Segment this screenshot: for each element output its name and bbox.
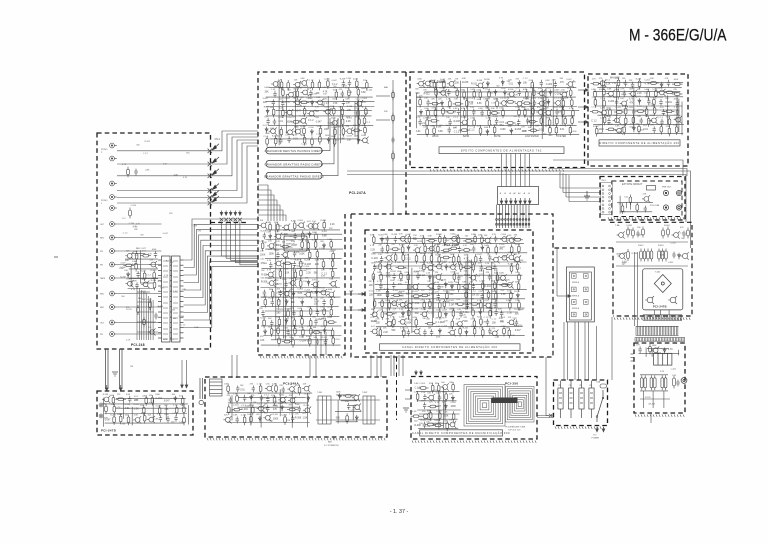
resistor R148 <box>319 134 322 145</box>
capacitor C199 <box>423 329 426 336</box>
cluster G-head annotation texts <box>104 400 185 426</box>
resistor R434 <box>259 383 262 394</box>
arrow <box>524 198 527 204</box>
capacitor C146 <box>480 110 483 117</box>
svg-text:4.7K: 4.7K <box>335 140 340 142</box>
wire balance rail <box>376 95 390 97</box>
wire strip feed <box>258 200 277 221</box>
resistor R180 <box>330 297 333 308</box>
resistor R266 <box>594 89 597 100</box>
resistor R198 <box>311 331 322 334</box>
resistor R366 <box>443 299 446 310</box>
resistor R454 <box>428 405 439 408</box>
wire <box>269 87 373 89</box>
svg-text:4.7K: 4.7K <box>307 88 312 90</box>
svg-text:4.7K: 4.7K <box>446 301 451 303</box>
capacitor C117 <box>287 136 290 143</box>
transistor Q220 <box>288 397 296 404</box>
svg-text:6.8K: 6.8K <box>648 120 653 122</box>
wire <box>104 403 188 405</box>
svg-text:0.047: 0.047 <box>277 136 283 138</box>
resistor R230 <box>442 106 445 117</box>
C-288 box <box>647 186 656 191</box>
transistor Q149 <box>538 90 546 97</box>
resistor R125 <box>299 101 310 104</box>
svg-text:1.5K: 1.5K <box>415 303 420 305</box>
transistor Q143 <box>423 80 431 87</box>
wire <box>250 402 252 425</box>
wire into PCI-247D <box>181 360 183 382</box>
svg-text:4.7K: 4.7K <box>116 407 121 409</box>
svg-text:2.2K: 2.2K <box>307 306 312 308</box>
wire riser speaker <box>556 248 558 296</box>
capacitor C173 <box>458 246 461 253</box>
transistor Q175 <box>385 254 393 261</box>
wire <box>545 88 547 127</box>
resistor R201 <box>282 340 293 343</box>
dashed branch left <box>553 247 613 249</box>
capacitor C227 <box>423 422 426 429</box>
resistor R241 <box>426 117 429 128</box>
wire <box>417 400 457 402</box>
resistor R288 <box>668 116 671 127</box>
diode D104 <box>265 127 268 134</box>
diode D145 <box>465 330 468 337</box>
rectifier bridge diamond <box>654 275 671 293</box>
svg-text:R-208: R-208 <box>637 235 643 237</box>
switch contact <box>208 162 212 166</box>
svg-text:C-204: C-204 <box>334 339 340 341</box>
capacitor C167 <box>660 119 663 126</box>
resistor R284 <box>603 115 606 126</box>
wire <box>651 349 653 357</box>
resistor R390 <box>503 326 506 337</box>
wire <box>542 97 544 132</box>
svg-text:4.7K: 4.7K <box>463 245 468 247</box>
printed spiral coil 2 <box>506 387 535 423</box>
wire strip feed <box>258 195 274 221</box>
tick row under PCI-249A <box>207 438 385 440</box>
svg-text:1.5K: 1.5K <box>278 226 283 228</box>
wire <box>316 399 380 401</box>
tick row under AC board <box>635 415 684 417</box>
capacitor C161 <box>676 100 679 107</box>
resistor R208 <box>435 87 438 98</box>
capacitor C145 <box>472 109 475 116</box>
svg-text:0.047: 0.047 <box>431 80 437 82</box>
wire into PCI-250 <box>393 355 395 376</box>
svg-text:R-311: R-311 <box>320 287 326 289</box>
resistor R273 <box>594 97 597 108</box>
wire speaker to plug <box>588 322 590 380</box>
wire <box>603 109 680 111</box>
wire <box>639 352 680 354</box>
resistor R377 <box>472 307 475 318</box>
wire <box>617 202 653 204</box>
resistor R443 <box>243 415 246 426</box>
svg-text:2.2K: 2.2K <box>461 125 466 127</box>
svg-text:4.7K: 4.7K <box>416 117 421 119</box>
capacitor C154 <box>624 80 627 87</box>
capacitor C104 <box>135 282 138 289</box>
svg-text:C-204: C-204 <box>349 410 355 412</box>
svg-text:C-204: C-204 <box>608 101 615 103</box>
resistor R306 <box>512 239 523 242</box>
wire jack to switch <box>117 306 162 308</box>
mic jack pair <box>663 205 681 210</box>
svg-text:100K: 100K <box>462 308 467 310</box>
resistor R145 <box>274 136 277 147</box>
resistor R441 <box>252 405 255 416</box>
svg-text:1.5K: 1.5K <box>269 420 274 422</box>
transistor Q222 <box>303 407 311 414</box>
wire <box>415 93 417 128</box>
resistor R172 <box>279 269 282 280</box>
wire into PCI-250 <box>390 355 392 376</box>
wire jack to switch <box>117 333 162 335</box>
cluster I-amp annotation texts <box>419 390 457 428</box>
svg-text:H FILTER: H FILTER <box>556 136 566 138</box>
connector comb row 2 <box>636 326 679 335</box>
svg-text:R-208: R-208 <box>636 79 642 81</box>
resistor R369 <box>480 300 483 311</box>
resistor R106 <box>135 261 138 272</box>
resistor R446 <box>343 395 354 398</box>
resistor R280 <box>635 110 646 113</box>
resistor R412 <box>650 375 653 390</box>
resistor R220 <box>453 103 464 106</box>
diode D117 <box>264 329 267 336</box>
arrow <box>505 198 508 204</box>
resistor R193 <box>270 326 273 337</box>
capacitor C221 <box>236 417 239 424</box>
capacitor C111 <box>272 99 275 106</box>
resistor R121 <box>296 89 299 100</box>
svg-text:4.7K: 4.7K <box>267 260 272 262</box>
svg-text:100K: 100K <box>247 414 252 416</box>
resistor R102 <box>129 208 132 219</box>
svg-text:PCI-250: PCI-250 <box>505 382 518 386</box>
wire <box>677 350 679 356</box>
resistor R275 <box>653 97 656 108</box>
bundle wire <box>519 154 521 187</box>
capacitor C141 <box>518 89 521 96</box>
wire <box>417 409 461 411</box>
resistor R373 <box>384 313 395 316</box>
svg-text:M - 366E/G/U/A: M - 366E/G/U/A <box>629 26 727 45</box>
resistor R382 <box>451 319 454 330</box>
svg-text:100K: 100K <box>260 255 266 257</box>
capacitor C171 <box>494 236 497 243</box>
svg-text:6.8K: 6.8K <box>327 316 332 318</box>
resistor R447 <box>346 413 349 424</box>
wire board interconnect <box>231 355 233 378</box>
transistor Q147 <box>439 89 447 96</box>
capacitor C138 <box>540 80 543 87</box>
capacitor C108 <box>273 91 276 98</box>
svg-text:2.2K: 2.2K <box>413 326 418 328</box>
svg-text:0.01: 0.01 <box>125 408 130 410</box>
svg-text:0.047: 0.047 <box>473 326 479 328</box>
capacitor C160 <box>659 99 662 106</box>
arrow <box>500 198 503 204</box>
resistor R384 <box>480 316 483 327</box>
resistor R345 <box>407 282 410 293</box>
transistor Q185 <box>469 274 477 281</box>
wire jack to switch <box>117 322 162 324</box>
wire <box>165 406 167 420</box>
resistor R215 <box>533 88 536 99</box>
wire riser <box>565 174 567 197</box>
svg-text:2.2K: 2.2K <box>552 79 557 81</box>
transistor Q137 <box>329 280 337 287</box>
svg-text:0.047: 0.047 <box>440 79 446 81</box>
wire jack to switch <box>117 223 162 225</box>
resistor R147 <box>311 137 314 148</box>
transistor Q164 <box>613 117 621 124</box>
resistor R111 <box>143 317 146 328</box>
svg-text:6.8K: 6.8K <box>346 98 351 100</box>
svg-text:2.2K: 2.2K <box>279 108 284 110</box>
capacitor C175 <box>380 256 383 263</box>
wire <box>416 391 459 393</box>
wire strip feed <box>258 210 283 221</box>
svg-text:6.8K: 6.8K <box>320 307 325 309</box>
svg-text:1.5K: 1.5K <box>299 327 304 329</box>
svg-text:R-208: R-208 <box>261 282 268 284</box>
resistor R406 <box>661 249 664 262</box>
arrow <box>602 427 605 432</box>
switch contact <box>208 201 212 205</box>
capacitor C162 <box>632 109 635 116</box>
svg-text:C-204: C-204 <box>297 220 303 222</box>
wire board interconnect <box>370 355 372 377</box>
capacitor C166 <box>640 118 643 125</box>
wire <box>316 419 380 421</box>
wire <box>275 223 277 340</box>
tape jack 8 <box>110 320 117 325</box>
svg-text:C-204: C-204 <box>442 245 448 247</box>
wire strip feed <box>258 215 286 221</box>
resistor R191 <box>324 318 327 329</box>
svg-text:4.7K: 4.7K <box>264 117 269 119</box>
transistor Q111 <box>293 99 301 106</box>
capacitor C200 <box>430 329 433 336</box>
svg-text:BASS: BASS <box>463 135 470 138</box>
capacitor C225 <box>438 395 441 402</box>
svg-text:1.5K: 1.5K <box>147 299 152 301</box>
transistor Q190 <box>505 281 513 288</box>
wire <box>116 398 186 400</box>
capacitor C206 <box>638 347 641 354</box>
svg-text:4.7K: 4.7K <box>549 135 554 137</box>
transistor Q168 <box>399 235 407 242</box>
svg-text:0.047: 0.047 <box>515 330 521 332</box>
resistor R327 <box>457 254 460 265</box>
svg-text:CN: CN <box>130 366 134 368</box>
svg-text:C 1.2: C 1.2 <box>454 131 460 133</box>
resistor R287 <box>647 116 650 127</box>
stray dashed edge left of PCI-250 <box>396 357 398 420</box>
svg-text:0.047: 0.047 <box>554 90 560 92</box>
resistor R249 <box>556 116 559 127</box>
wire <box>132 253 145 255</box>
resistor R367 <box>455 303 466 306</box>
resistor R344 <box>518 272 521 283</box>
PCB board PCI-230 outline <box>365 230 533 353</box>
svg-text:100K: 100K <box>499 273 504 275</box>
svg-text:R-208: R-208 <box>484 79 490 81</box>
resistor R438 <box>273 395 276 406</box>
PCB board PCI-247D outline <box>97 391 193 435</box>
svg-text:R-208: R-208 <box>392 234 398 236</box>
svg-text:R-311: R-311 <box>428 270 434 272</box>
wire <box>105 422 185 424</box>
svg-text:100K: 100K <box>599 129 605 131</box>
resistor R371 <box>518 300 521 311</box>
resistor R436 <box>298 385 301 396</box>
svg-text:2.2K: 2.2K <box>419 268 424 270</box>
wire R2 rail <box>640 398 670 400</box>
switch contact <box>229 218 233 222</box>
transistor Q107 <box>293 81 301 88</box>
svg-text:4.7K: 4.7K <box>453 304 458 306</box>
resistor R262 <box>617 78 620 89</box>
tape jack 4 <box>110 262 117 267</box>
svg-text:100K: 100K <box>436 336 441 338</box>
capacitor C184 <box>488 274 491 281</box>
svg-text:4.7K: 4.7K <box>164 275 169 277</box>
svg-text:C-204: C-204 <box>361 98 367 100</box>
svg-text:50K: 50K <box>384 111 388 113</box>
diode D148 <box>174 396 177 403</box>
transistor Q184 <box>434 273 442 280</box>
wire <box>275 233 342 235</box>
resistor R224 <box>505 101 516 104</box>
svg-text:6.8K: 6.8K <box>497 280 502 282</box>
svg-text:2.2K: 2.2K <box>299 249 304 251</box>
svg-text:T-301: T-301 <box>317 392 323 394</box>
svg-text:100K: 100K <box>269 253 275 255</box>
svg-text:6.8K: 6.8K <box>430 288 435 290</box>
capacitor C124 <box>293 261 296 268</box>
resistor R428 <box>113 414 116 425</box>
wire selector to preamp <box>226 222 258 259</box>
svg-text:C-204: C-204 <box>601 85 607 87</box>
svg-text:0.047: 0.047 <box>599 89 605 91</box>
resistor R235 <box>502 108 505 119</box>
resistor R267 <box>603 87 606 98</box>
svg-text:R-311: R-311 <box>477 317 483 319</box>
svg-text:6.8K: 6.8K <box>322 235 327 237</box>
svg-text:2.2K: 2.2K <box>443 421 448 423</box>
capacitor C152 <box>526 118 529 125</box>
resistor R361 <box>381 298 384 309</box>
R1 left dashed edge <box>612 248 614 316</box>
wire <box>282 262 284 339</box>
resistor R455 <box>411 415 422 418</box>
svg-text:2.2K: 2.2K <box>470 107 475 109</box>
fuse <box>600 384 607 388</box>
svg-text:R-618: R-618 <box>658 245 664 247</box>
wire speaker to plug <box>578 322 580 380</box>
PCB board PCI-250 outline <box>411 377 537 440</box>
svg-text:1.5K: 1.5K <box>508 126 513 128</box>
wire <box>645 348 647 357</box>
wire nest inside PCI-248 <box>137 286 158 340</box>
svg-text:6.8K: 6.8K <box>301 135 306 137</box>
svg-text:C-204: C-204 <box>297 289 303 291</box>
wire <box>373 252 528 254</box>
resistor R425 <box>158 405 161 416</box>
resistor R326 <box>452 254 455 265</box>
wire <box>640 390 668 392</box>
transistor Q127 <box>306 222 314 229</box>
svg-text:4.7K: 4.7K <box>372 321 377 323</box>
capacitor C220 <box>298 406 301 413</box>
wire jack to switch <box>117 237 162 239</box>
svg-text:4.7K: 4.7K <box>267 269 272 271</box>
transistor Q180 <box>384 263 392 270</box>
resistor R426 <box>175 405 178 416</box>
svg-text:100K: 100K <box>629 127 634 129</box>
svg-text:CN-205: CN-205 <box>648 404 656 406</box>
resistor R135 <box>358 116 361 127</box>
transistor Q151 <box>500 99 508 106</box>
resistor R394 <box>636 202 639 213</box>
svg-text:6.8K: 6.8K <box>345 401 350 403</box>
resistor R381 <box>425 322 436 325</box>
svg-text:0.01: 0.01 <box>560 129 565 131</box>
svg-text:R-208: R-208 <box>435 254 441 256</box>
svg-text:4.7K: 4.7K <box>514 94 519 96</box>
svg-text:100K: 100K <box>331 250 336 252</box>
svg-text:1.5K: 1.5K <box>455 273 460 275</box>
resistor R383 <box>473 318 476 329</box>
power board dashed outline <box>610 222 692 316</box>
svg-text:6.8K: 6.8K <box>145 169 150 171</box>
svg-text:6.8K: 6.8K <box>607 88 612 90</box>
transistor Q120 <box>286 129 294 136</box>
resistor R120 <box>282 87 285 98</box>
diode D155 <box>451 395 454 402</box>
transistor Q207 <box>672 231 680 238</box>
svg-text:TAPE: TAPE <box>100 277 106 280</box>
svg-text:6.8K: 6.8K <box>291 241 296 243</box>
svg-text:47K: 47K <box>273 409 278 411</box>
resistor R257 <box>528 129 539 132</box>
svg-text:100K: 100K <box>332 99 337 101</box>
wire jack to selector <box>117 150 209 152</box>
diode D103 <box>266 108 269 115</box>
wire <box>633 88 635 130</box>
svg-text:100K: 100K <box>674 79 679 81</box>
svg-text:1.5K: 1.5K <box>376 261 381 263</box>
svg-text:C-204: C-204 <box>274 326 280 328</box>
svg-text:100K: 100K <box>329 269 334 271</box>
svg-text:0.047: 0.047 <box>284 268 290 270</box>
svg-text:C-204: C-204 <box>442 325 448 327</box>
transistor Q155 <box>536 108 544 115</box>
svg-text:0.047: 0.047 <box>501 88 507 90</box>
resistor R132 <box>365 106 368 117</box>
svg-text:REC: REC <box>100 307 105 309</box>
connector comb row 3 <box>635 338 685 342</box>
resistor R424 <box>143 405 146 416</box>
svg-text:R-311: R-311 <box>493 116 499 118</box>
svg-text:6.8K: 6.8K <box>174 175 179 177</box>
bundle wire <box>501 154 503 187</box>
